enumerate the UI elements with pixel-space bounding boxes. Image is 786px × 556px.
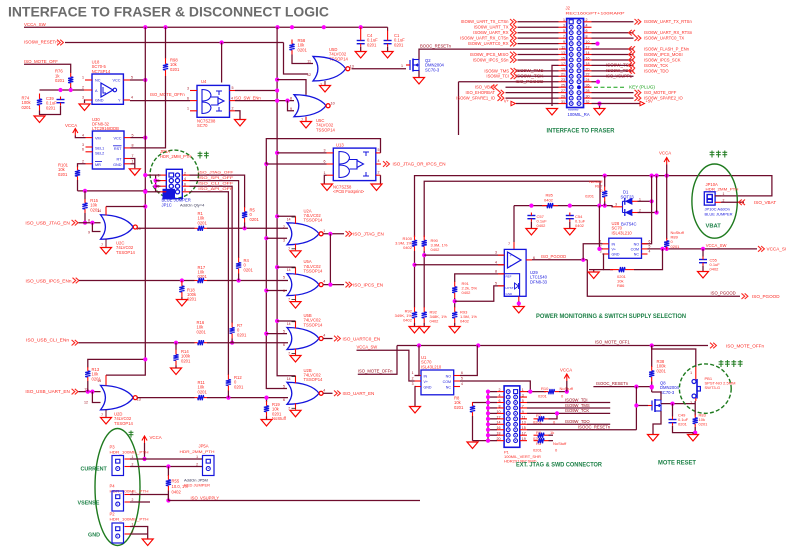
wire U5D out to Q2 gate	[352, 68, 407, 70]
connector J2 body	[567, 19, 584, 108]
svg-text:ISO6W_UART_RX_RTSn: ISO6W_UART_RX_RTSn	[644, 30, 693, 35]
net label ISO_MOTE_OFF	[24, 59, 58, 64]
svg-text:8: 8	[88, 219, 90, 223]
port ISO6W_UART_TX_CTSn chevron	[510, 19, 516, 25]
svg-text:TSSOP14: TSSOP14	[304, 269, 324, 274]
svg-text:16: 16	[586, 56, 590, 60]
junction	[486, 395, 490, 399]
port ISO6W_TCI chevron	[511, 74, 517, 80]
wire ISO_JTAG_OFF	[190, 175, 245, 207]
connector J2 pin numbers	[561, 18, 590, 104]
svg-text:R86: R86	[617, 283, 625, 288]
U5C gnd stub	[301, 117, 306, 122]
svg-text:0201: 0201	[533, 447, 543, 452]
wire ISO6W_UART_TX_RTSn from J2	[592, 21, 634, 23]
wire ISO6W_TMS to J2	[518, 70, 559, 72]
U4 pin leads	[187, 86, 235, 111]
wire R8 down	[472, 416, 474, 441]
svg-text:MR: MR	[95, 163, 101, 167]
net label ISO6W_TDO	[644, 68, 669, 73]
wire U2A out	[323, 233, 344, 235]
svg-text:0201: 0201	[46, 105, 56, 110]
resistor R98 label	[170, 58, 180, 72]
or-gate U5D	[313, 56, 354, 80]
wire U28 COM to VCCA_SW	[648, 248, 758, 250]
wire ISO_VSUPPLY from J2	[592, 75, 634, 77]
wire +5V from J2	[592, 103, 641, 105]
net label ISO6W_TMS	[484, 68, 509, 73]
wire R89 bottom	[666, 248, 668, 250]
svg-text:DFN8-33: DFN8-33	[530, 279, 548, 284]
junction	[163, 25, 167, 29]
wire to PB1	[652, 346, 696, 368]
svg-text:ISO9W_TDO: ISO9W_TDO	[565, 419, 590, 424]
net label ISO_VBAT	[475, 85, 496, 90]
svg-text:10: 10	[497, 410, 501, 414]
JP1A pin leads	[158, 171, 190, 194]
resistor R4 label	[244, 258, 254, 272]
svg-text:4: 4	[649, 250, 651, 254]
net alias ISO9W_TCK	[516, 74, 544, 79]
junction	[650, 199, 654, 203]
net label ISO6W_SPARE2_IO	[644, 96, 684, 101]
caption EXT JTAG	[516, 462, 602, 469]
wire U5A out	[323, 284, 344, 286]
net label ISO_API_OFF	[198, 186, 234, 191]
svg-text:4: 4	[499, 393, 501, 397]
svg-text:4: 4	[82, 133, 84, 137]
junction	[486, 411, 490, 415]
wire ISO6W_RESETn to U4 top	[221, 43, 223, 83]
svg-text:V+: V+	[612, 248, 617, 252]
wire vcc branch U5A	[277, 266, 295, 268]
junction	[412, 263, 416, 267]
connector P1 labels	[504, 450, 541, 464]
svg-text:ISO_USB_JTAG_EN: ISO_USB_JTAG_EN	[25, 220, 70, 225]
svg-text:1: 1	[196, 455, 198, 459]
capacitor C4	[357, 38, 365, 47]
wire ISO_PGOOD out	[532, 259, 587, 261]
wire U5C pin9 branch	[288, 101, 295, 111]
connector P1 body	[504, 386, 520, 447]
wire Q2 drain to BOOC_RESETn	[419, 49, 558, 59]
wire D1 riser 656	[656, 176, 658, 213]
svg-text:19: 19	[561, 67, 565, 71]
port VCCA_SW out	[758, 246, 786, 252]
resistor R100	[412, 236, 417, 252]
junction	[422, 253, 426, 257]
IC U18 labels	[92, 60, 111, 74]
svg-text:ISO6W_UART_RX_CTSn: ISO6W_UART_RX_CTSn	[460, 36, 509, 41]
junction	[143, 78, 147, 82]
svg-text:0201: 0201	[234, 384, 244, 389]
wire ISO_MOTE_OFF from J2	[592, 92, 634, 94]
resistor R87	[602, 186, 607, 202]
svg-text:ISO_JTAG_OR_IPCS_EN: ISO_JTAG_OR_IPCS_EN	[393, 162, 446, 167]
wire Q8 gate feed	[636, 405, 648, 407]
wire R55 bottom	[167, 491, 169, 501]
wire R87 top stub	[604, 176, 606, 187]
junction	[90, 221, 94, 225]
resistor R19 label	[272, 402, 287, 421]
port ISO_MOTE_OFFn out	[710, 343, 764, 349]
svg-text:KEY (PLUG): KEY (PLUG)	[629, 85, 655, 90]
wire U30 RT GND to ground	[131, 159, 135, 169]
IC U28 labels	[612, 221, 633, 235]
ground under C1	[382, 52, 393, 59]
wire C57 gnd stub	[530, 222, 532, 228]
svg-text:9: 9	[290, 107, 292, 111]
U2A gate vcc stub	[287, 216, 296, 224]
wire R17 to U5A pin5	[207, 280, 288, 282]
svg-text:ISO9W_TCK: ISO9W_TCK	[516, 74, 544, 79]
junction	[275, 78, 279, 82]
svg-text:ISO_PGOOD: ISO_PGOOD	[516, 79, 544, 84]
svg-text:ISO6W_TDO: ISO6W_TDO	[644, 68, 669, 73]
svg-text:HDR_100MIL_PTH: HDR_100MIL_PTH	[110, 517, 149, 522]
svg-text:ISO6W_UART_TX_CTSn: ISO6W_UART_TX_CTSn	[461, 19, 510, 24]
power VCCA at P1	[560, 368, 572, 382]
svg-text:6: 6	[586, 29, 588, 33]
capacitor C57	[527, 213, 535, 222]
IC U13 label	[336, 143, 344, 148]
svg-text:2: 2	[690, 401, 692, 405]
svg-text:BLUE JUMPER: BLUE JUMPER	[705, 212, 733, 217]
net label ISO6W_FLASH_P_ENn	[644, 46, 690, 51]
svg-text:0201: 0201	[367, 42, 377, 47]
resistor R90 label	[431, 238, 448, 252]
resistor R3 label	[533, 441, 567, 452]
U5A gate vcc stub	[287, 267, 296, 275]
wire U2A-U5A output link	[329, 234, 331, 285]
svg-text:14: 14	[287, 217, 291, 221]
svg-text:8: 8	[586, 35, 588, 39]
ground under U29	[513, 307, 524, 314]
wire node to comparator top	[513, 206, 515, 242]
svg-text:ISO_MOTE_OFF: ISO_MOTE_OFF	[644, 90, 677, 95]
junction	[285, 99, 289, 103]
junction	[275, 265, 279, 269]
wire R7 bus bottom	[231, 339, 233, 343]
port ISO_EHORBAT chevron	[498, 90, 504, 96]
junction	[275, 88, 279, 92]
svg-text:ISO6W_SPARE1_IO: ISO6W_SPARE1_IO	[456, 96, 496, 101]
wire ISO6W_UART_RX to J2	[518, 32, 559, 34]
net label ISO6W_UARTC0_TX	[644, 36, 684, 41]
svg-text:ISO9W_TMS: ISO9W_TMS	[565, 403, 590, 408]
svg-text:COM: COM	[443, 380, 451, 384]
svg-text:U4: U4	[201, 79, 207, 84]
wire U13 pin6 to bus	[266, 163, 326, 165]
svg-text:ISOOC_RESETn: ISOOC_RESETn	[578, 425, 611, 430]
svg-text:4: 4	[378, 159, 380, 163]
capacitor C55 label	[710, 258, 721, 272]
junction	[264, 288, 268, 292]
svg-text:ISO_IPCS_EN: ISO_IPCS_EN	[353, 282, 383, 287]
wire ISO6W_TDO from J2	[592, 70, 634, 72]
svg-text:7: 7	[522, 404, 524, 408]
wire ISO_API_OFF	[190, 192, 229, 375]
wire U29 gnd	[518, 301, 520, 306]
U29 pin leads	[495, 251, 535, 301]
resistor R16 label	[197, 320, 207, 334]
junction	[486, 439, 490, 443]
svg-text:7: 7	[101, 243, 103, 247]
svg-text:ISO6W_UARTC0_RX: ISO6W_UARTC0_RX	[468, 41, 509, 46]
wire R14 top	[175, 343, 177, 350]
svg-text:VCCA: VCCA	[65, 123, 77, 128]
svg-text:ISO6W_FLASH_P_ENn: ISO6W_FLASH_P_ENn	[644, 46, 690, 51]
or-gate U5A	[287, 274, 323, 296]
resistor R17	[195, 278, 208, 283]
resistor R93b	[422, 307, 427, 323]
svg-text:3: 3	[324, 149, 326, 153]
svg-text:1: 1	[690, 371, 692, 375]
svg-text:13: 13	[350, 65, 354, 69]
svg-text:14: 14	[287, 268, 291, 272]
wire ISO_USB_JTAG_EN	[79, 222, 101, 224]
svg-text:8: 8	[499, 404, 501, 408]
net label ISO_USB_IPCS_ENn	[26, 278, 73, 283]
net label ISO6W_IPCS_SSn	[473, 57, 510, 62]
wire ISO_MOTE_OFF	[24, 64, 71, 73]
svg-text:ISO6W_IPCS_SSn: ISO6W_IPCS_SSn	[473, 57, 510, 62]
net label ISO_MOTE_OFFn tail	[358, 368, 393, 373]
svg-text:ISO_API_OFF: ISO_API_OFF	[198, 186, 234, 191]
svg-text:ISO6W_IPCS_MOSI: ISO6W_IPCS_MOSI	[644, 52, 683, 57]
svg-text:2: 2	[499, 388, 501, 392]
net label ISO_CLI_OFF	[198, 181, 234, 186]
svg-text:1: 1	[187, 107, 189, 111]
wire R5 bus bottom	[244, 223, 246, 229]
svg-text:14: 14	[287, 322, 291, 326]
wire ISO6W_UARTC0_RX to J2	[518, 43, 559, 45]
diode D1 ref	[621, 221, 637, 226]
svg-text:6: 6	[283, 343, 285, 347]
junction	[226, 396, 230, 400]
capacitor C1	[384, 38, 392, 47]
svg-text:SC70-3: SC70-3	[660, 390, 675, 395]
power VCCA bottom-left	[142, 435, 162, 443]
svg-text:HDR_2MM_PTH: HDR_2MM_PTH	[180, 449, 215, 454]
wire U2D input tie	[92, 392, 100, 403]
net label BOOC_RESETn	[420, 43, 452, 48]
svg-text:3: 3	[615, 202, 617, 206]
port ISO_USB_CLI_ENn chevron	[72, 340, 78, 346]
resistor R101 label	[58, 163, 69, 177]
wire ISO_MOTE_OFFn from gates	[358, 346, 397, 375]
net label ISO6W_UART_RX	[473, 30, 509, 35]
IC U13	[333, 148, 376, 181]
svg-text:14: 14	[586, 51, 590, 55]
net label VCCA_SW	[24, 22, 47, 27]
svg-text:INTERFACE TO FRASER: INTERFACE TO FRASER	[547, 127, 615, 134]
wire R86 riser to COM row	[634, 249, 663, 270]
net label ISO6W_TCI	[486, 74, 509, 79]
resistor R101	[75, 167, 80, 181]
svg-text:0402: 0402	[430, 319, 440, 324]
net label ISO6W_UART_TX_RTSn	[644, 19, 692, 24]
wire U18 A node	[40, 89, 85, 91]
ground under U5A	[290, 302, 301, 309]
net label ISO_USB_UART_EN	[25, 389, 70, 394]
header JP10A labels	[706, 182, 739, 192]
U5A gate labels	[304, 259, 324, 273]
wire bottom rail MOTE	[673, 426, 696, 433]
wire P3 pin2 rail	[130, 466, 203, 468]
capacitor C57 label	[537, 214, 548, 228]
ground under U2A	[290, 251, 301, 257]
resistor R58 label	[298, 38, 308, 52]
svg-text:12: 12	[497, 415, 501, 419]
svg-text:SC70-3: SC70-3	[425, 67, 440, 72]
wire ISO6W_IPCS_MOSI from J2	[592, 54, 634, 56]
resistor R85	[542, 203, 558, 208]
junction	[328, 232, 332, 236]
net label ISO_SW_ENn	[234, 96, 261, 101]
resistor R86	[610, 267, 634, 272]
wire U13 pin2 to ground	[380, 175, 382, 183]
svg-text:REF: REF	[506, 275, 512, 279]
resistor R11	[195, 395, 208, 400]
net label ISO_MOTE_OFF right	[644, 90, 677, 95]
junction	[359, 25, 363, 29]
wire REF net	[455, 274, 505, 282]
svg-text:1: 1	[723, 192, 725, 196]
wire v2 to U30 RST	[131, 76, 166, 148]
svg-text:4: 4	[323, 334, 325, 338]
caption POWER MONITORING	[536, 313, 686, 320]
junction	[275, 214, 279, 218]
svg-text:GND: GND	[424, 386, 432, 390]
svg-text:HYST: HYST	[506, 286, 514, 290]
resistor R7 label	[237, 323, 247, 337]
svg-text:18: 18	[586, 62, 590, 66]
junction	[486, 422, 490, 426]
IC U1	[421, 370, 454, 395]
U2A gate labels	[304, 208, 324, 222]
Q2 gate pin number	[401, 64, 403, 68]
net label ISO6W_RESETn	[24, 40, 58, 45]
svg-text:TSSOP14: TSSOP14	[304, 322, 324, 327]
junction	[328, 283, 332, 287]
resistor R12 label	[234, 375, 244, 389]
svg-text:0402: 0402	[403, 318, 413, 323]
U30 pin leads	[82, 133, 134, 164]
junction	[58, 88, 62, 92]
port ISO_USB_UART_EN chevron	[72, 389, 78, 395]
net alias ISO9W_TCK	[606, 63, 632, 68]
svg-text:GND: GND	[113, 163, 122, 167]
wire R15 top	[84, 191, 86, 200]
resistor R98	[163, 58, 168, 76]
svg-text:24: 24	[586, 78, 590, 82]
wire U1 IN feed	[415, 346, 420, 376]
junction	[603, 204, 607, 208]
net alias ISOXC_RESETn	[578, 425, 611, 430]
IC U4 label	[201, 79, 207, 84]
header P3 labels	[110, 445, 149, 455]
text BLUE JUMPER	[162, 197, 206, 207]
wire pullup rail	[78, 190, 146, 192]
wire P3 pin1 to JP5A	[130, 458, 203, 460]
wire R16 to U5B pin6	[207, 342, 288, 344]
svg-text:7: 7	[101, 413, 103, 417]
svg-text:VCCA_SW: VCCA_SW	[767, 247, 786, 252]
svg-text:ISO_PGOOD: ISO_PGOOD	[752, 294, 780, 299]
wire R2 right	[549, 413, 558, 418]
svg-text:1k: 1k	[550, 430, 554, 435]
svg-text:HDR_2MM_PTH: HDR_2MM_PTH	[706, 187, 739, 192]
svg-text:BAT54C: BAT54C	[621, 221, 637, 226]
wire U30 MR to R101	[78, 164, 86, 168]
wire ISO9W_TCK	[527, 412, 610, 414]
wire R19 gnd stub	[266, 417, 268, 420]
wire R38 top	[651, 346, 653, 368]
wire ISO_PGOOD drop to port	[587, 260, 740, 296]
ground under C57	[526, 229, 537, 236]
svg-text:4: 4	[323, 280, 325, 284]
svg-text:ISO6W_IPCS_MISO: ISO6W_IPCS_MISO	[470, 52, 509, 57]
svg-text:ISO6W_IPCS_SCK: ISO6W_IPCS_SCK	[644, 57, 681, 62]
connector P1 pin leads	[497, 388, 528, 441]
wire Q8 drain	[652, 392, 661, 400]
svg-text:10: 10	[586, 40, 590, 44]
U2B gate gnd stub	[288, 403, 295, 410]
svg-text:0201: 0201	[394, 42, 404, 47]
resistor R3	[534, 438, 549, 443]
resistor R100 label	[395, 236, 413, 250]
net alias ISO_VSUPPL	[606, 74, 633, 79]
or-gate U2A	[287, 223, 323, 245]
wire C1 gnd stub	[387, 47, 389, 51]
wire ISO6W_UARTC0_TX from J2	[592, 37, 634, 39]
wire R100 col	[414, 251, 416, 308]
capacitor C49	[669, 417, 677, 426]
ground under U2C	[101, 248, 112, 255]
svg-text:AddOn Qty=4: AddOn Qty=4	[180, 202, 205, 207]
net alias ISO9W_TDO	[565, 419, 590, 424]
svg-text:25: 25	[561, 84, 565, 88]
svg-text:22: 22	[586, 73, 590, 77]
ground under U5C	[301, 122, 312, 129]
junction	[264, 332, 268, 336]
svg-text:9: 9	[563, 40, 565, 44]
svg-text:3: 3	[412, 382, 414, 386]
ground under U28	[588, 272, 599, 279]
jumper block JP1C installed	[163, 189, 176, 200]
svg-text:NC7SP14: NC7SP14	[92, 69, 111, 74]
resistor R9	[534, 433, 549, 438]
svg-text:5: 5	[495, 282, 497, 286]
junction	[264, 396, 268, 400]
svg-text:NoStuff: NoStuff	[272, 416, 287, 421]
resistor R17 label	[198, 265, 208, 279]
junction	[275, 25, 279, 29]
wire JP1A pin7 from v1	[145, 191, 160, 193]
port ISO6W_IPCS_SSn chevron	[510, 57, 516, 63]
wire ISO_PGOOD to J2	[459, 81, 559, 83]
svg-text:V+: V+	[504, 98, 510, 103]
svg-text:ISO_CLI_OFF: ISO_CLI_OFF	[198, 181, 234, 186]
svg-text:NC: NC	[95, 79, 101, 83]
ground under R83	[688, 435, 699, 442]
resistor R92 label	[395, 309, 413, 323]
wire U28 gnd rail left	[589, 269, 604, 271]
net label ISO_MOTE_OFFn at U18 Y	[150, 92, 185, 97]
diode D1 labels	[621, 190, 635, 200]
svg-text:REC160GPT+100RARP: REC160GPT+100RARP	[566, 11, 625, 16]
